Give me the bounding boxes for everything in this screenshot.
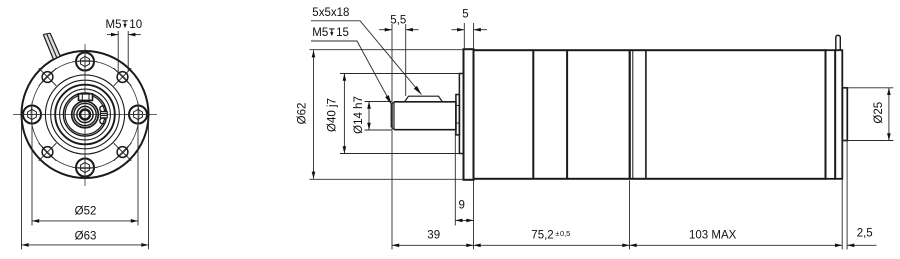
svg-text:10: 10 [129,19,142,31]
svg-text:M5: M5 [312,27,328,39]
svg-text:M5: M5 [106,19,122,31]
svg-text:Ø14 h7: Ø14 h7 [353,96,365,134]
svg-text:Ø62: Ø62 [297,103,309,125]
svg-text:103 MAX: 103 MAX [689,230,737,242]
svg-text:39: 39 [427,230,440,242]
svg-text:5,5: 5,5 [390,15,406,27]
svg-text:5x5x18: 5x5x18 [312,7,349,19]
svg-text:± 0,5: ± 0,5 [555,229,570,238]
svg-text:2,5: 2,5 [857,227,873,239]
svg-text:Ø52: Ø52 [75,205,97,217]
svg-text:Ø63: Ø63 [75,231,97,243]
svg-text:75,2: 75,2 [531,230,553,242]
svg-text:Ø25: Ø25 [873,102,885,124]
svg-text:Ø40 j7: Ø40 j7 [327,98,339,132]
svg-text:9: 9 [458,200,464,212]
svg-text:5: 5 [462,9,468,21]
svg-text:15: 15 [336,27,349,39]
